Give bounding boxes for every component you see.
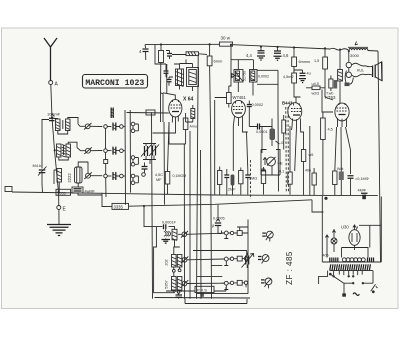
svg-text:KUL: KUL — [357, 69, 364, 73]
wire pot box — [261, 150, 280, 176]
svg-text:B443: B443 — [282, 101, 293, 106]
contact matrix2 row2 — [222, 256, 248, 265]
resistor 0.1M IF cathode — [155, 172, 186, 195]
svg-text:3335: 3335 — [114, 204, 124, 209]
rectifier tube U30 — [341, 225, 360, 251]
svg-text:w5: w5 — [309, 153, 314, 157]
capacitor 0.1MF — [346, 127, 369, 195]
wire plate feed X64 — [163, 64, 167, 122]
switch wiper S1 band1 — [78, 123, 102, 130]
wire long verticals left-mid — [125, 110, 131, 205]
svg-text:2MF: 2MF — [228, 188, 236, 192]
svg-text:4MΦ: 4MΦ — [358, 189, 366, 193]
transformer secondary winding — [330, 264, 374, 270]
capacitor 0.0002 top — [247, 101, 263, 127]
IF can 1 primary — [229, 45, 254, 92]
coil output primary — [338, 50, 343, 104]
svg-text:MARCONI 1023: MARCONI 1023 — [85, 79, 144, 88]
wire band3 bottom — [72, 187, 83, 193]
coil L3a band3 — [54, 169, 62, 187]
switch wiper osc row1 — [178, 231, 224, 238]
svg-text:4u: 4u — [307, 72, 311, 76]
oscillator coil L4 (left, hatched) — [176, 64, 184, 90]
terminal blob voice coil — [345, 71, 354, 87]
title box MARCONI 1023 — [83, 75, 148, 89]
resistor anode X64 — [169, 113, 190, 299]
capacitor 4u screen — [294, 70, 311, 83]
svg-text:405: 405 — [323, 254, 329, 258]
capacitor C top-left — [139, 45, 149, 60]
coil L2a band2 — [57, 144, 66, 157]
transformer taps — [332, 271, 373, 284]
capacitor 0.0001 coupling — [249, 124, 272, 135]
switch shaft hatch — [111, 108, 115, 119]
svg-text:4,5C: 4,5C — [155, 173, 163, 177]
capacitor 4.4u to ground — [246, 47, 265, 60]
node antenna junction — [57, 191, 59, 193]
svg-text:4,5: 4,5 — [328, 128, 333, 132]
node coil taps — [51, 117, 53, 119]
svg-text:30 w: 30 w — [221, 36, 231, 41]
indicator lamp 1 — [262, 231, 273, 241]
svg-text:1555: 1555 — [57, 190, 67, 195]
node HT junction — [324, 197, 327, 200]
coil L1b band1 — [58, 118, 78, 135]
electrolytic cathode KT63 — [337, 127, 344, 195]
wire bus2 — [102, 193, 312, 207]
svg-text:3000: 3000 — [350, 53, 360, 58]
capacitor C2 top — [166, 51, 186, 60]
node junctions on HT bus — [160, 43, 350, 52]
svg-text:5357: 5357 — [165, 280, 169, 288]
svg-text:U30: U30 — [341, 225, 349, 230]
svg-text:-0: -0 — [280, 141, 283, 145]
svg-text:4,6: 4,6 — [283, 53, 289, 58]
wire osc-supply links — [193, 220, 248, 294]
resistor 2000 (horizontal) — [186, 52, 207, 56]
tube 3 B443 — [282, 101, 302, 128]
wire HT top bus — [145, 44, 378, 51]
svg-text:4,4: 4,4 — [246, 53, 252, 58]
resistor 4,5 anode feed — [321, 112, 333, 195]
potentiometer volume (shaded) — [270, 119, 284, 147]
resistor 30ohm (top bus) — [220, 36, 233, 47]
resistor 0.1 det — [279, 126, 292, 195]
svg-text:MF: MF — [156, 178, 162, 182]
svg-text:X 64: X 64 — [183, 97, 194, 103]
svg-text:0,0001F: 0,0001F — [162, 221, 177, 225]
shield dashed line — [250, 107, 288, 199]
resistor R top-left — [159, 45, 164, 94]
switch voltage selector — [319, 271, 373, 294]
transformer primary winding — [323, 254, 374, 262]
power supply box — [322, 196, 381, 262]
capacitor cathode tube2 — [245, 132, 250, 195]
antenna — [44, 38, 57, 81]
wire long vertical x151 — [152, 112, 153, 299]
svg-text:202: 202 — [165, 259, 169, 265]
coil L3b band3 (boxed) — [75, 162, 89, 187]
resistor 0.3M below bus — [207, 45, 223, 127]
svg-text:M4.b: M4.b — [33, 163, 43, 168]
svg-text:0,1: 0,1 — [279, 170, 284, 174]
capacitor trim osc a — [164, 68, 169, 77]
wire osc coils top — [155, 45, 193, 78]
switch wiper osc row3 — [181, 280, 224, 287]
wire bottom bus — [155, 297, 251, 300]
box PRS bottom — [166, 286, 247, 303]
transformer secondary circles — [346, 51, 351, 77]
resistor 3335 on bus2 — [112, 203, 129, 209]
svg-text:40u: 40u — [305, 169, 311, 173]
contact row3 — [104, 163, 148, 185]
oscillator block outline — [154, 227, 175, 293]
resistor tone — [326, 76, 337, 96]
svg-text:2222: 2222 — [67, 173, 72, 183]
indicator lamp 3 — [261, 278, 272, 288]
capacitor block 0.1 — [146, 110, 155, 115]
coil L1a band1 — [54, 119, 60, 131]
resistor bias KT63 — [333, 127, 337, 195]
svg-text:4,5m2: 4,5m2 — [283, 75, 294, 79]
resistor screen B443 upper — [292, 47, 310, 66]
coil IF feed — [186, 105, 195, 122]
tube X64 — [153, 93, 197, 133]
variable capacitor tuning gang a — [141, 144, 151, 160]
tube 2 W746 — [232, 95, 248, 132]
wire antenna lead down — [51, 85, 59, 193]
svg-text:0,1MOM: 0,1MOM — [173, 174, 187, 178]
capacitor padder 0.0005 — [212, 205, 225, 234]
wire pins B443 — [292, 127, 304, 171]
potentiometer circle HE — [267, 157, 284, 166]
svg-text:6mmm: 6mmm — [299, 60, 311, 64]
contact row2 — [104, 147, 139, 167]
component left edge on bus1 — [5, 187, 12, 192]
resistor 5M det — [249, 167, 266, 195]
capacitor trim osc b — [167, 77, 172, 86]
oscillator coil L5 (boxed) — [187, 64, 199, 92]
wire bus2 into supply — [312, 200, 324, 212]
electrolytic 4MF on bus — [358, 189, 368, 200]
variable capacitor main tuning — [242, 253, 254, 269]
svg-text:1,5: 1,5 — [314, 59, 319, 63]
resistor cathode B443 — [301, 150, 313, 195]
wire bus1 (earth rail) — [12, 192, 378, 196]
resistor screen B443 lower — [283, 67, 297, 98]
wire drop to osc block — [144, 206, 156, 227]
wire heater loop — [325, 225, 381, 257]
speaker — [352, 62, 382, 81]
capacitor 10cmF antenna coupling — [47, 112, 61, 121]
wire det column — [262, 110, 279, 192]
resistor grid B443 — [282, 115, 286, 150]
svg-text:=0,1MΦ: =0,1MΦ — [355, 177, 369, 181]
contact matrix2 row3 — [222, 280, 248, 289]
capacitor pair a — [224, 169, 229, 195]
variable capacitor tuning gang b — [143, 143, 159, 164]
coil osc row3 pair — [165, 273, 182, 293]
resistor 40u — [305, 168, 316, 195]
wire long verticals mid — [161, 55, 228, 299]
resistor grid tube2 — [227, 86, 234, 171]
svg-text:0,0002: 0,0002 — [258, 75, 269, 79]
contact row1 — [104, 122, 139, 132]
svg-text:W7461: W7461 — [233, 95, 247, 100]
svg-text:P.R.S: P.R.S — [197, 288, 207, 293]
resistor screen pair a — [218, 167, 222, 195]
wire to band trimmer — [42, 120, 49, 169]
trimmer band3 — [33, 163, 47, 192]
svg-text:6mm: 6mm — [214, 59, 224, 64]
wire switch bus verticals — [105, 128, 108, 197]
svg-text:0,0002: 0,0002 — [252, 103, 264, 107]
terminal E — [57, 192, 67, 212]
terminal A — [49, 81, 59, 88]
arrow P2 — [261, 158, 267, 172]
IF can 1 secondary — [250, 60, 279, 110]
electrolytic 2MF — [228, 175, 236, 195]
coil osc row2 pair — [165, 247, 182, 272]
switch wiper S1 band2 — [77, 147, 102, 154]
svg-text:Amu: Amu — [190, 125, 197, 129]
svg-text:51750: 51750 — [243, 71, 247, 82]
coupling box 0.02 — [306, 82, 333, 100]
svg-text:u4,5: u4,5 — [312, 82, 319, 86]
switch wiper osc row2 — [181, 257, 224, 264]
wire AVC line left — [127, 112, 169, 115]
wire grid KT63 — [322, 90, 333, 113]
coil field 3000 (top bus) — [348, 42, 368, 59]
fuse box on bus1 — [56, 189, 71, 195]
padder trimmer bottom — [176, 291, 183, 299]
capacitor 0.0001F osc — [156, 221, 176, 230]
svg-text:ZF : 485: ZF : 485 — [285, 251, 294, 285]
svg-text:w2Ω: w2Ω — [312, 92, 320, 96]
mains terminals — [342, 284, 377, 296]
resistor grid KT63 — [314, 48, 328, 86]
indicator lamp 2 — [258, 255, 269, 264]
resistor cathode tube2 — [239, 168, 243, 195]
coil osc row1 — [172, 227, 177, 247]
dial lamp — [331, 229, 337, 252]
capacitor cathode B443 el — [295, 119, 311, 195]
wire plate B443 top — [294, 67, 301, 103]
coil L2b band2 — [59, 142, 77, 160]
wire right frame — [378, 51, 381, 262]
contact matrix2 row1 — [222, 227, 249, 239]
switch wiper S1 band3 — [84, 162, 102, 179]
svg-text:T.wb: T.wb — [326, 92, 333, 96]
ground — [47, 210, 71, 236]
coil osc small — [162, 230, 171, 244]
node bus2 junction — [143, 205, 145, 207]
capacitor 4.6 to ground — [274, 47, 289, 60]
tube 4 output — [325, 95, 349, 127]
svg-text:Wot: Wot — [337, 167, 343, 171]
